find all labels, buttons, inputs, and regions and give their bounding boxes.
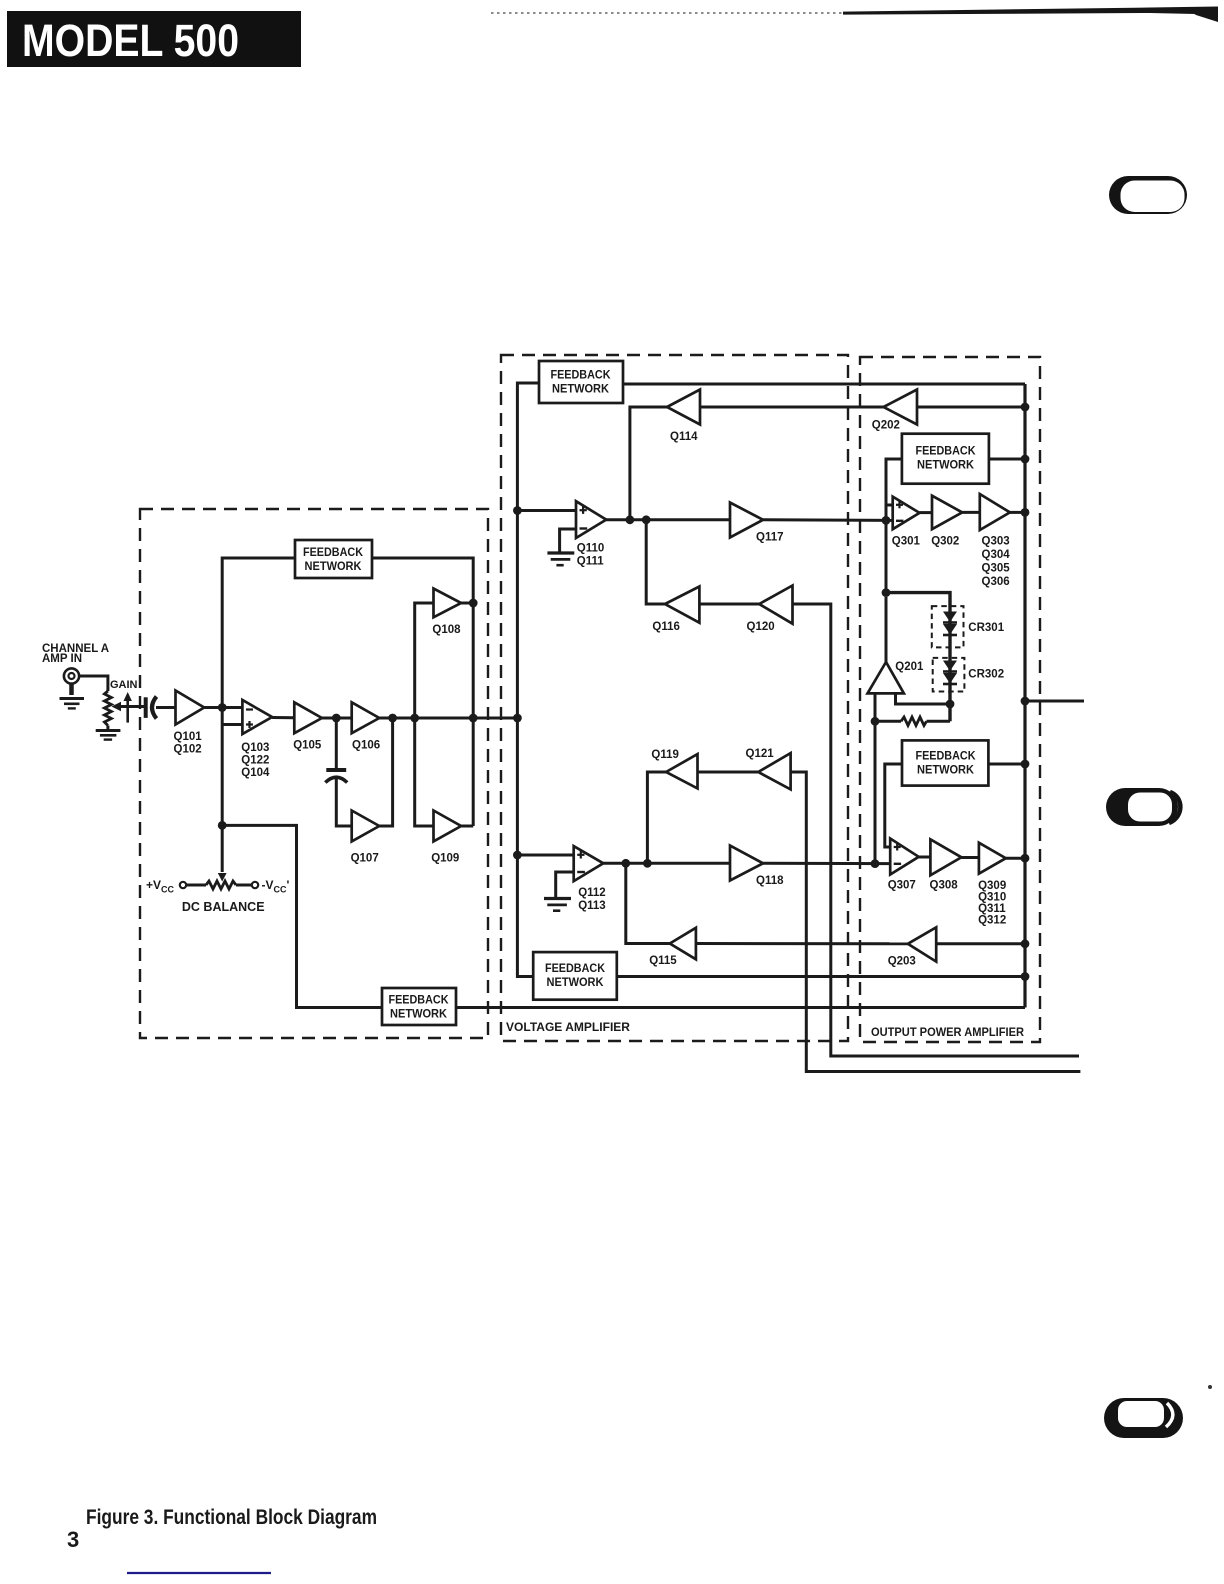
node trunk VA feedback (1021, 972, 1030, 981)
wire Q307 to Q308 (919, 856, 931, 859)
node trunk Q303 output (1021, 508, 1030, 517)
main wire Q106 to voltage amp (379, 717, 517, 720)
wire bias tap to diode chain (886, 593, 950, 612)
svg-text:Q107: Q107 (351, 853, 379, 865)
op-amp Q301 (893, 497, 920, 530)
svg-text:NETWORK: NETWORK (917, 765, 975, 777)
svg-text:Q301: Q301 (892, 536, 921, 548)
wire Q203 to Q115 (696, 942, 908, 945)
wire Q121 input from bottom sense line (791, 772, 1081, 1072)
svg-text:3: 3 (67, 1527, 79, 1552)
node Q114 branch (626, 515, 635, 524)
voltage amplifier block dashed border (501, 355, 848, 1041)
wire node down to C2 (335, 718, 338, 770)
svg-text:Q304: Q304 (982, 549, 1011, 561)
bottom blue rule (127, 1572, 271, 1574)
svg-text:Q302: Q302 (931, 536, 959, 548)
amplifier Q121 (758, 753, 790, 789)
svg-text:NETWORK: NETWORK (390, 1009, 448, 1021)
svg-text:Q116: Q116 (652, 621, 680, 633)
svg-text:Q122: Q122 (241, 755, 269, 767)
node Q107 join (388, 714, 397, 723)
wire Q203 input from trunk (936, 942, 1025, 945)
input rail (vertical x517) (517, 383, 539, 977)
svg-text:FEEDBACK: FEEDBACK (916, 751, 977, 763)
wire jack to gain pot (79, 676, 108, 691)
wire node to bottom feedback network (222, 825, 382, 1007)
svg-text:CR301: CR301 (968, 622, 1004, 634)
node bias tap (882, 588, 891, 597)
svg-text:NETWORK: NETWORK (305, 561, 363, 573)
node at C2 tap (332, 714, 341, 723)
wire VA top feedback to trunk (623, 383, 1025, 386)
input jack J1 (64, 668, 79, 695)
svg-text:VOLTAGE AMPLIFIER: VOLTAGE AMPLIFIER (506, 1022, 631, 1034)
svg-text:Q113: Q113 (578, 900, 606, 912)
wire branch to Q108 Q109 inputs (415, 603, 434, 826)
amplifier Q303 Q304 Q305 Q306 (980, 494, 1010, 530)
node Q301 input (882, 516, 891, 525)
svg-text:Q202: Q202 (872, 420, 900, 432)
arrow wiper DC balance (218, 873, 227, 882)
svg-text:Q120: Q120 (747, 621, 775, 633)
output trunk rail (vertical x1025) (1023, 384, 1026, 1008)
binder hole mark 3 (1104, 1398, 1183, 1438)
amplifier Q109 (434, 811, 462, 842)
svg-text:Q121: Q121 (746, 748, 775, 760)
wire Q121 to Q119 (698, 771, 759, 774)
op-amp Q103 Q122 Q104 (242, 700, 272, 734)
diode CR302a (943, 661, 957, 672)
node Q108 output (469, 599, 478, 608)
node trunk bottom feedback (1021, 760, 1030, 769)
feedback network box OPA bottom (902, 740, 988, 785)
node rail main input (513, 714, 522, 723)
node Q307 input (871, 859, 880, 868)
svg-text:Q115: Q115 (649, 955, 677, 967)
amplifier Q203 (908, 927, 936, 961)
binder hole mark 2 (1106, 788, 1180, 826)
resistor gain potentiometer (104, 691, 111, 726)
svg-text:MODEL 500: MODEL 500 (22, 15, 239, 66)
node Q115 branch (621, 859, 630, 868)
node Q116 branch (642, 515, 651, 524)
binder hole mark 1 (1109, 176, 1187, 214)
stray scan speck (1208, 1385, 1212, 1389)
wire Q110 minus to ground (560, 529, 576, 552)
wire Q112 output row (603, 862, 730, 865)
svg-text:Q203: Q203 (888, 956, 916, 968)
wire Q109 output to rail (461, 825, 473, 828)
wire Q303 output to trunk (1010, 511, 1025, 514)
svg-text:GAIN: GAIN (110, 679, 138, 691)
svg-text:NETWORK: NETWORK (917, 460, 975, 472)
wire feedback to Q301 plus and down to CR network (886, 459, 902, 593)
amplifier Q201 (868, 662, 904, 693)
wire Q107 output up to main line (379, 718, 392, 826)
svg-text:NETWORK: NETWORK (547, 977, 605, 989)
amplifier Q116 (665, 587, 699, 623)
wire OPA bottom feedback to trunk (988, 763, 1025, 766)
node trunk Q203 (1021, 939, 1030, 948)
svg-text:Q102: Q102 (174, 744, 202, 756)
wire Q201 base lead left down (874, 693, 877, 721)
svg-text:AMP IN: AMP IN (42, 653, 82, 665)
wire Q201 apex to bias tap (885, 597, 888, 662)
svg-text:FEEDBACK: FEEDBACK (303, 547, 364, 559)
svg-text:Q110: Q110 (577, 543, 605, 555)
diode chain CR301 CR302 vertical (948, 612, 951, 721)
svg-text:Q109: Q109 (431, 853, 459, 865)
svg-text:Q310: Q310 (978, 892, 1006, 904)
speaker output line (1025, 700, 1084, 703)
svg-text:Q308: Q308 (930, 880, 959, 892)
node trunk Q309 output (1021, 854, 1030, 863)
svg-text:Q306: Q306 (982, 576, 1010, 588)
dashed box CR302 (933, 658, 965, 692)
wire Q301 to Q302 (920, 511, 933, 514)
wire OPA top feedback to trunk (989, 458, 1025, 461)
ground at Q110 (547, 553, 574, 565)
svg-text:Q114: Q114 (670, 431, 698, 443)
svg-text:Q118: Q118 (756, 875, 784, 887)
svg-text:Figure 3. Functional Block Di: Figure 3. Functional Block Diagram (86, 1505, 377, 1529)
amplifier Q309 Q310 Q311 Q312 (979, 843, 1006, 874)
node diode chain bottom (946, 700, 955, 709)
amplifier Q119 (666, 754, 698, 788)
svg-text:Q111: Q111 (577, 556, 604, 568)
amplifier Q105 (294, 702, 322, 733)
amplifier Q101 Q102 (176, 691, 205, 725)
long wire bottom feedback to output trunk (456, 1006, 1025, 1009)
feedback network box OPA top (902, 434, 989, 484)
wire Q302 to Q303 (962, 511, 980, 514)
wire Q103 to Q105 (272, 716, 294, 719)
svg-text:FEEDBACK: FEEDBACK (545, 963, 606, 975)
wire Q119 output down to node (647, 772, 666, 863)
page top edge dotted rule (491, 12, 845, 14)
wire Q114 output down to node (630, 407, 667, 520)
feedback network box preamp top (295, 540, 372, 578)
feedback network box preamp bottom (382, 988, 456, 1025)
wire Q105 to Q106 (322, 717, 352, 720)
amplifier Q308 (930, 839, 961, 875)
op-amp Q112 Q113 (574, 846, 604, 881)
op-amp Q110 Q111 (576, 501, 606, 538)
svg-text:Q312: Q312 (978, 915, 1006, 927)
wire Q110 output row (606, 518, 730, 521)
amplifier Q115 (670, 928, 696, 960)
amplifier Q202 (884, 390, 918, 425)
wire C2 to Q107 input (336, 779, 351, 826)
wire Q201 base lead to diode bottom (896, 693, 951, 704)
amplifier Q117 (730, 503, 763, 538)
svg-text:Q305: Q305 (982, 563, 1011, 575)
node at Q101 output (218, 703, 227, 712)
output power amplifier block dashed border (860, 357, 1040, 1042)
preamp block dashed border (140, 509, 488, 1038)
svg-text:Q309: Q309 (978, 880, 1006, 892)
svg-text:FEEDBACK: FEEDBACK (389, 995, 450, 1007)
svg-text:Q112: Q112 (578, 887, 606, 899)
svg-text:Q104: Q104 (241, 767, 270, 779)
node Q108/Q109 branch (410, 714, 419, 723)
wire Q202 input from trunk (917, 406, 1025, 409)
node main line at rail (469, 714, 478, 723)
node to bottom feedback (218, 821, 227, 830)
amplifier Q120 (759, 586, 792, 624)
svg-text:Q108: Q108 (432, 624, 461, 636)
ground at Q112 (544, 899, 571, 911)
wire Q120 input from bottom sense line (793, 604, 1080, 1056)
dashed box CR301 (932, 606, 964, 647)
wire Q202 to Q114 (700, 406, 884, 409)
title block MODEL 500 (7, 11, 301, 67)
amplifier Q106 (352, 702, 380, 733)
resistor DC balance potentiometer (180, 881, 258, 889)
capacitor C2 (325, 770, 347, 783)
wire Q108 output (461, 602, 473, 605)
capacitor C1 coupling (146, 697, 157, 719)
svg-text:Q117: Q117 (756, 532, 784, 544)
wire cap to Q101 (156, 706, 176, 709)
wire Q118 to Q307 (763, 862, 890, 865)
wire Q308 to Q309 (961, 856, 979, 859)
svg-text:NETWORK: NETWORK (552, 384, 610, 396)
svg-text:Q103: Q103 (241, 742, 269, 754)
wire feedback to Q307 plus (885, 764, 902, 847)
wire to Q103 plus input (222, 723, 242, 726)
node rail Q112 input (513, 851, 522, 860)
wire VA bottom feedback to trunk (617, 975, 1025, 978)
wire Q115 output up to node (626, 863, 670, 943)
svg-text:FEEDBACK: FEEDBACK (551, 370, 612, 382)
amplifier Q108 (434, 589, 462, 618)
svg-text:Q201: Q201 (895, 661, 924, 673)
wire Q116 output up to node (646, 520, 665, 604)
node resistor left (871, 717, 880, 726)
feedback rail right (vertical x473) (372, 558, 473, 826)
svg-text:Q106: Q106 (352, 740, 380, 752)
wiper arrow of gain pot (112, 692, 147, 723)
svg-text:Q307: Q307 (888, 880, 916, 892)
amplifier Q118 (730, 846, 763, 881)
feedback network box VA bottom (533, 952, 617, 1000)
feedback network box VA top (539, 361, 623, 403)
wire Q120 to Q116 (699, 603, 759, 606)
node Q119 branch (643, 859, 652, 868)
wire down to Q307 input (874, 721, 877, 863)
svg-text:Q105: Q105 (293, 740, 322, 752)
svg-text:Q101: Q101 (174, 731, 203, 743)
amplifier Q302 (932, 496, 962, 530)
amplifier Q107 (352, 811, 380, 842)
svg-text:DC BALANCE: DC BALANCE (182, 900, 265, 914)
svg-text:Q303: Q303 (982, 536, 1010, 548)
wire rail to Q110 (517, 509, 576, 512)
node trunk Q202 (1021, 403, 1030, 412)
wire Q309 output to trunk (1006, 857, 1025, 860)
wire rail to Q112 (517, 854, 573, 857)
wire Q101 to Q103 (204, 706, 242, 709)
wire Q117 to Q301 (763, 518, 893, 522)
feedback rail left (vertical x222) (222, 558, 295, 872)
resistor R201 (875, 717, 950, 726)
page top edge solid rule (843, 7, 1218, 15)
ground at gain pot (96, 731, 121, 740)
op-amp Q307 (890, 839, 919, 875)
node rail Q110 input (513, 506, 522, 515)
diode CR301a (943, 612, 957, 623)
diode CR302b (943, 673, 957, 684)
diode CR301b (943, 624, 957, 635)
svg-text:Q119: Q119 (651, 749, 679, 761)
svg-text:FEEDBACK: FEEDBACK (916, 446, 977, 458)
svg-text:CR302: CR302 (968, 669, 1004, 681)
svg-text:Q311: Q311 (978, 903, 1006, 915)
node trunk output (1021, 697, 1030, 706)
wire Q112 minus to ground (556, 872, 574, 897)
amplifier Q114 (667, 390, 700, 425)
svg-text:OUTPUT POWER AMPLIFIER: OUTPUT POWER AMPLIFIER (871, 1027, 1025, 1039)
ground at input jack (60, 699, 85, 709)
node trunk top feedback (1021, 455, 1030, 464)
